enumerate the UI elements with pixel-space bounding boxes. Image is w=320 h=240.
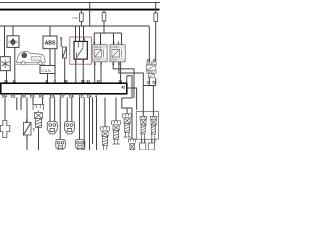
wire: K1 pins to ECU — [75, 59, 77, 83]
car silhouette with ABS — [16, 51, 45, 65]
wire: relay B pin8 down — [113, 62, 134, 98]
brake light switch symbol — [0, 121, 10, 138]
wire: lamp box to ECU pin 34 — [6, 71, 8, 84]
svg-text:C.A.N: C.A.N — [42, 69, 52, 73]
wire: ECU right to staircase — [122, 76, 132, 139]
svg-text:34: 34 — [4, 79, 8, 83]
box warning device — [0, 57, 10, 71]
wire: pin118 to sensor FR — [66, 98, 68, 123]
wire: ECU pin42 to solenoid box — [127, 88, 137, 110]
asterisk icon — [2, 60, 10, 69]
svg-text:ABS: ABS — [45, 41, 56, 47]
wire: rail to lamp box — [4, 26, 6, 57]
wire: rail to pump box — [12, 26, 14, 36]
pump motor symbol — [35, 112, 43, 127]
wheel sensor FR — [65, 122, 75, 134]
svg-text:4: 4 — [118, 41, 120, 45]
fuse 3 — [154, 13, 158, 22]
wire: feed valve S3 — [104, 98, 106, 127]
wire: relay B to ECU pin 21 — [120, 62, 122, 83]
svg-text:110: 110 — [30, 95, 35, 99]
wire: pin102 down — [42, 98, 44, 105]
wire: rail corner down right side — [148, 26, 150, 62]
wire: branch to relay A pin1 — [100, 33, 102, 45]
wire: pin121b down — [83, 98, 85, 151]
wire: pump box to ECU pin 11 — [14, 47, 16, 83]
wire: pin116 to sensor FL — [49, 98, 51, 123]
svg-text:111: 111 — [11, 95, 16, 99]
connector under left coil — [140, 143, 146, 150]
relay K1 internals — [77, 41, 84, 59]
svg-text:7: 7 — [54, 79, 56, 83]
solenoid valve S1 — [123, 114, 132, 137]
svg-text:66: 66 — [64, 79, 68, 83]
lamp cluster label strip 2 — [146, 70, 156, 73]
svg-text:F13: F13 — [73, 16, 79, 20]
wire: pin103 down — [26, 98, 28, 123]
svg-text:65: 65 — [81, 79, 85, 83]
wire: branch to relay A pin3 — [93, 33, 95, 45]
wire: branch to relay B pin2 — [113, 33, 115, 45]
wire: main battery bus — [0, 9, 160, 11]
relay A box — [93, 45, 107, 62]
wire: fuse2 branch bar — [94, 32, 121, 34]
wire: pin103 stub — [20, 98, 22, 111]
wire: pin117 to sensor RL — [59, 98, 61, 140]
wire: pin down long — [92, 98, 94, 145]
wire: relay A pin2 to ECU — [100, 62, 102, 83]
relay A coil symbol — [95, 50, 102, 58]
relay K1 contact box — [74, 41, 87, 59]
svg-text:32: 32 — [87, 79, 91, 83]
svg-text:13D3D: 13D3D — [111, 46, 119, 49]
wire: pin114 down — [89, 98, 91, 151]
svg-text:3: 3 — [33, 128, 35, 132]
fuse 2 — [102, 13, 106, 22]
sensor resistor — [23, 123, 31, 136]
lamp cluster diode box — [146, 65, 156, 70]
wire: pin104 down — [4, 98, 6, 121]
wire: component between ABS and relay — [60, 37, 62, 47]
wire: branch to relay B pin4 — [121, 33, 123, 45]
wire: CAN to ECU pin 6 — [47, 74, 49, 84]
relay B coil symbol — [112, 50, 120, 58]
svg-text:3: 3 — [93, 41, 95, 45]
svg-text:104: 104 — [2, 95, 7, 99]
wire: fuse 3 feed right — [155, 3, 157, 63]
svg-text:2: 2 — [113, 41, 115, 45]
wire: F13 feed — [80, 10, 82, 26]
relay box K1 (red outline) — [70, 37, 92, 64]
wire: pin110 down — [32, 98, 34, 105]
svg-text:1: 1 — [100, 41, 102, 45]
coil valve left — [140, 116, 147, 139]
solenoid enclosure box — [136, 111, 158, 139]
wire: ABS to CAN — [49, 49, 51, 66]
wire: S1 feed — [126, 108, 128, 114]
relay A top label strip — [94, 45, 107, 48]
svg-text:22: 22 — [97, 79, 101, 83]
svg-text:RE13D: RE13D — [94, 46, 102, 49]
wire: pump down — [38, 127, 40, 150]
wheel sensor RR — [75, 140, 85, 151]
relay B top label strip — [111, 45, 125, 48]
pump connector bracket — [33, 105, 44, 113]
wire: distribution rail — [0, 25, 149, 27]
wire: lamp bottom bar — [143, 85, 155, 87]
wire: link top line to rail — [89, 2, 91, 26]
fuse F13 — [80, 13, 84, 22]
solenoid valve S3 — [101, 127, 110, 150]
svg-text:11: 11 — [13, 79, 17, 83]
solenoid valve S2 — [112, 121, 121, 144]
wire: resistor down — [26, 135, 28, 150]
svg-text:102: 102 — [39, 95, 44, 99]
wire: resistor to ECU pin 66 — [64, 58, 66, 83]
pump icon — [9, 38, 18, 45]
box ABS unit — [43, 36, 57, 49]
wheel sensor RL — [56, 140, 66, 151]
resistor on sensor line — [63, 47, 67, 58]
lamp cluster label strip 1 — [146, 62, 156, 65]
wire: pin111 stub — [16, 98, 18, 111]
lamp cluster lower diode box — [148, 74, 154, 78]
wire: pin121 to sensor RR — [79, 98, 81, 140]
ECU main box — [1, 83, 127, 94]
wire: fuse 2 feed — [103, 10, 105, 33]
wire: K1 pins to rail — [75, 26, 77, 41]
wire: lamp pins down — [148, 78, 150, 86]
wire: thin supply line top — [0, 2, 160, 4]
wire: rail to ABS unit — [49, 26, 51, 36]
wheel sensor FL — [47, 122, 57, 134]
svg-text:42: 42 — [122, 85, 126, 89]
wire: pin4 down — [96, 98, 98, 151]
wire: relay A pin4 to ECU — [94, 62, 96, 83]
coil valve right — [150, 116, 157, 139]
relay A bottom label strip — [94, 58, 107, 61]
box electro-pump unit — [7, 36, 19, 48]
svg-text:21: 21 — [119, 79, 123, 83]
relay B box — [110, 45, 125, 62]
wire: S2 feed — [115, 98, 117, 121]
connector under right coil — [148, 143, 154, 150]
wire: ABS to ECU pin 7 — [54, 49, 56, 83]
svg-text:6: 6 — [46, 79, 48, 83]
svg-text:118: 118 — [69, 95, 74, 99]
solenoid valve S4 partial — [128, 139, 135, 150]
relay B bottom label strip — [111, 58, 125, 61]
box CAN interface — [40, 66, 55, 74]
wire: relay B pin6 down right — [119, 62, 143, 117]
wire: lamp right leg down to coil — [152, 86, 154, 117]
